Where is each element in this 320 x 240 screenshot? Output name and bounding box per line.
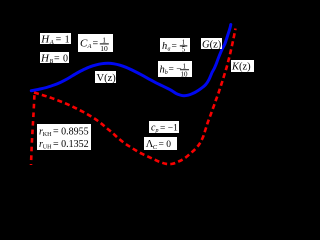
svg-text:A: A	[49, 39, 54, 46]
svg-text:G(z): G(z)	[202, 39, 222, 50]
label box h_b = -1/10	[158, 61, 192, 78]
curve V(z)/G(z) blue solid	[31, 25, 231, 96]
svg-text:C: C	[153, 144, 158, 151]
svg-text:a: a	[168, 46, 171, 52]
curve red dashed vertical branch	[31, 95, 34, 165]
svg-text:B: B	[50, 59, 54, 65]
svg-text:= 0.1352: = 0.1352	[53, 139, 89, 150]
label box Lambda_C = 0	[144, 137, 177, 151]
svg-text:=: =	[93, 39, 99, 50]
label box C_A = 1/10	[78, 34, 113, 53]
label box H_B = 0	[40, 52, 69, 65]
svg-text:=: =	[172, 42, 177, 52]
svg-text:h: h	[162, 41, 167, 52]
svg-text:= −1: = −1	[160, 123, 178, 133]
svg-text:A: A	[87, 43, 92, 50]
svg-text:= 0.8955: = 0.8955	[53, 127, 89, 138]
svg-text:10: 10	[181, 70, 189, 78]
svg-text:10: 10	[100, 44, 108, 53]
label box K(z)	[231, 60, 254, 73]
svg-text:b: b	[165, 70, 168, 76]
label box h_a = 1/5	[160, 38, 190, 54]
svg-text:UH: UH	[43, 144, 52, 150]
svg-text:= 1: = 1	[56, 34, 70, 45]
svg-text:= 0: = 0	[159, 140, 172, 150]
curve K(z) red dashed main	[34, 29, 236, 165]
svg-text:H: H	[40, 52, 50, 64]
svg-text:= 0: = 0	[54, 53, 68, 64]
svg-text:p: p	[155, 128, 159, 134]
svg-text:V(z): V(z)	[97, 73, 117, 84]
svg-text:1: 1	[183, 62, 187, 70]
label box G(z)	[201, 38, 222, 50]
svg-text:5: 5	[182, 46, 186, 54]
svg-text:H: H	[40, 33, 50, 45]
label box H_A = 1	[40, 33, 71, 46]
svg-text:KH: KH	[43, 132, 52, 138]
label box c_p = -1	[149, 121, 179, 134]
svg-text:K(z): K(z)	[231, 62, 251, 73]
label box r_KH / r_UH	[37, 124, 91, 150]
label box V(z)	[95, 71, 116, 84]
